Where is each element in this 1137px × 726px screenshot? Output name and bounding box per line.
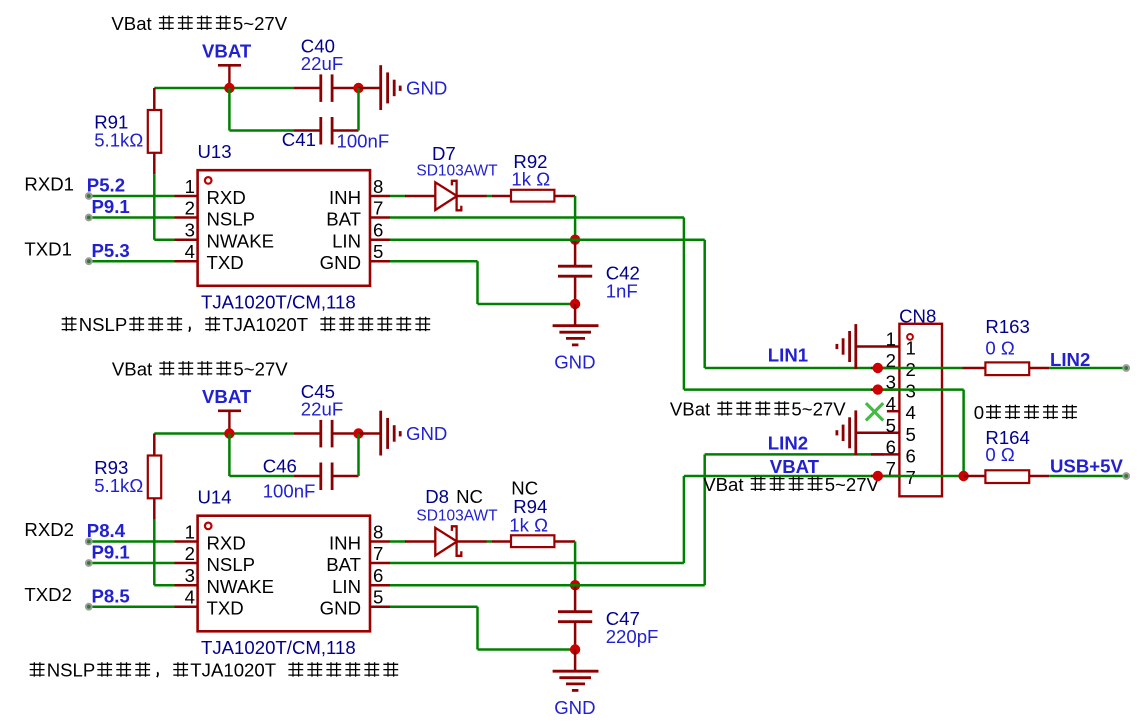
- wire C41 up to junction (upper): [357, 88, 360, 131]
- wire U14 BAT to CN8 pin7: [390, 476, 878, 563]
- label C47 value: [606, 626, 659, 647]
- junction VBAT rail / R (upper): [224, 83, 234, 93]
- label R164 designator: [985, 427, 1029, 448]
- net label P8.4: [87, 520, 126, 541]
- IC U14 pin-1 indicator circle: [205, 523, 212, 530]
- net label LIN2 (left of CN8): [768, 432, 808, 453]
- svg-text:4: 4: [906, 402, 916, 423]
- svg-text:6: 6: [373, 565, 383, 586]
- svg-text:7: 7: [373, 543, 383, 564]
- svg-text:GND: GND: [554, 697, 595, 718]
- svg-text:R163: R163: [985, 316, 1029, 337]
- svg-text:NSLP: NSLP: [207, 209, 256, 230]
- svg-text:LIN: LIN: [332, 231, 361, 252]
- wire VBAT rail (lower): [154, 432, 294, 435]
- wire end dot P5.3: [85, 257, 93, 265]
- wire U14 GND pin to C47 (lower): [390, 607, 575, 650]
- wire U14 LIN to CN8 pin6: [390, 454, 884, 585]
- label C42 designator: [606, 263, 640, 284]
- label R94 designator: [513, 496, 547, 517]
- svg-text:GND: GND: [406, 423, 447, 444]
- comment text 'VBat power 5~27V' near CN8 pin7: [703, 474, 879, 495]
- label U13 part number: [201, 292, 356, 313]
- capacitor C42 bottom pin (upper): [574, 276, 577, 304]
- IC U14 pin names: [207, 533, 362, 619]
- label D7 designator: [432, 143, 456, 164]
- resistor R91 body (upper): [148, 110, 161, 153]
- diode D8 anode wire (lower): [390, 540, 406, 543]
- wire to GND symbol (lower): [359, 432, 381, 435]
- svg-text:3: 3: [185, 220, 195, 241]
- comment text 'VBat power 5~27V' above lower LIN circuit: [112, 358, 288, 379]
- wire U13 BAT to CN8 pin3: [390, 218, 878, 390]
- resistor R92 right pin (upper): [554, 195, 575, 198]
- label GND (lower top): [406, 423, 447, 444]
- ground symbol (bar style) at CN8 pin1: [837, 324, 856, 369]
- wire to earth ground (upper): [574, 304, 577, 326]
- connector CN8 pin numbers (inside): [906, 338, 916, 489]
- svg-text:5: 5: [373, 241, 383, 262]
- svg-text:5.1kΩ: 5.1kΩ: [94, 130, 143, 151]
- wire end dot P8.4: [85, 538, 93, 546]
- net label LIN1: [768, 345, 808, 366]
- svg-text:RXD2: RXD2: [24, 519, 74, 540]
- svg-text:2: 2: [906, 359, 916, 380]
- wire P8.4 to chip (lower): [89, 540, 175, 543]
- capacitor C41 pins (upper): [294, 129, 359, 132]
- wire R163 to LIN2 port: [1049, 367, 1126, 370]
- diode D8 triangle: [435, 528, 457, 556]
- resistor R93 top pin (lower): [153, 434, 156, 456]
- label U13 designator: [198, 141, 232, 162]
- resistor R91 bottom pin (upper): [153, 153, 156, 175]
- net label P8.5: [92, 586, 130, 607]
- power port VBAT (lower): [202, 386, 252, 433]
- wire P8.5 to chip (lower): [89, 605, 175, 608]
- wire VBAT to C46 (lower): [229, 434, 294, 477]
- junction R94/LIN (lower): [570, 580, 580, 590]
- label R163 value 0Ω: [985, 338, 1015, 359]
- diode D8 anode pin (lower): [405, 540, 435, 543]
- svg-text:VBAT: VBAT: [770, 456, 820, 477]
- capacitor C45 pins (lower): [294, 432, 359, 435]
- comment text 'if NSLP low -> sleep' under U13: [62, 314, 430, 335]
- ground symbol (earth) below C47: [553, 671, 599, 690]
- svg-text:BAT: BAT: [326, 554, 361, 575]
- svg-text:TJA1020T: TJA1020T: [222, 314, 308, 335]
- svg-text:VBat: VBat: [112, 358, 153, 379]
- wire C46 up to junction (lower): [357, 434, 360, 477]
- label R92 designator: [513, 151, 547, 172]
- label CN8 designator: [899, 306, 936, 327]
- wire R94 down to LIN net (lower): [574, 542, 577, 586]
- svg-text:GND: GND: [320, 598, 361, 619]
- wire diode-R94 gap (lower): [487, 540, 493, 543]
- svg-text:1nF: 1nF: [606, 281, 638, 302]
- svg-text:5~27V: 5~27V: [233, 358, 288, 379]
- junction CN8 pin2: [873, 363, 883, 373]
- svg-text:GND: GND: [406, 78, 447, 99]
- svg-text:5.1kΩ: 5.1kΩ: [94, 475, 143, 496]
- label U14 designator: [198, 487, 232, 508]
- svg-text:1k Ω: 1k Ω: [509, 514, 548, 535]
- svg-text:5~27V: 5~27V: [791, 398, 846, 419]
- IC U13 pin names: [207, 187, 362, 273]
- svg-text:7: 7: [906, 467, 916, 488]
- label TXD1 (black): [24, 238, 72, 259]
- junction R92/LIN (upper): [570, 235, 580, 245]
- label D8 part SD103AWT: [416, 508, 498, 525]
- resistor R164 right pin: [1029, 475, 1049, 478]
- wire R93 to NWAKE (lower): [154, 520, 174, 585]
- wire diode-R92 gap (upper): [487, 195, 493, 198]
- label D7 part SD103AWT: [416, 163, 498, 180]
- svg-text:NWAKE: NWAKE: [207, 231, 275, 252]
- label C41 designator: [282, 129, 316, 150]
- svg-text:NSLP: NSLP: [47, 660, 96, 681]
- wire to GND symbol (upper): [359, 87, 381, 90]
- wire to earth ground (lower): [574, 650, 577, 672]
- connector CN8 body: [899, 324, 942, 497]
- label C47 designator: [606, 608, 640, 629]
- wire CN8 pin2 through to R163: [878, 367, 963, 370]
- svg-text:BAT: BAT: [326, 209, 361, 230]
- label U14 part number: [201, 637, 356, 658]
- label D8 NC flag: [456, 486, 483, 507]
- wire end dot P9.1: [85, 214, 93, 222]
- svg-text:TXD2: TXD2: [24, 584, 72, 605]
- junction cap/GND node (upper): [353, 83, 363, 93]
- label R91 designator: [94, 112, 128, 133]
- label R93 value 5.1kΩ: [94, 475, 143, 496]
- wire VBAT rail (upper): [154, 87, 294, 90]
- capacitor C47 bottom pin (lower): [574, 622, 577, 650]
- diode D7 schottky cathode bar: [452, 181, 461, 211]
- svg-text:4: 4: [185, 241, 195, 262]
- svg-text:1: 1: [906, 338, 916, 359]
- no-ERC marker (green X) at CN8 pin4: [866, 403, 883, 420]
- connector CN8 pin-1 indicator circle: [907, 334, 913, 340]
- svg-text:5: 5: [906, 424, 916, 445]
- resistor R163 right pin: [1029, 367, 1049, 370]
- svg-text:VBat: VBat: [670, 398, 711, 419]
- svg-text:USB+5V: USB+5V: [1050, 455, 1123, 476]
- label C45 designator: [301, 381, 335, 402]
- label R91 value 5.1kΩ: [94, 130, 143, 151]
- label R94 NC flag: [511, 478, 538, 499]
- svg-text:0 Ω: 0 Ω: [985, 444, 1015, 465]
- label C45 value 22uF: [301, 399, 343, 420]
- resistor R94 right pin (lower): [554, 540, 575, 543]
- wire CN8 pin7 through to junction: [878, 475, 964, 478]
- IC U13 pin stubs: [175, 196, 391, 261]
- svg-text:6: 6: [373, 220, 383, 241]
- capacitor C42 plates (upper): [558, 266, 592, 276]
- IC U13 pin-1 indicator circle: [205, 177, 212, 184]
- wire U13 LIN to CN8 pin2: [390, 240, 878, 368]
- resistor R93 body (lower): [148, 456, 161, 499]
- svg-text:100nF: 100nF: [337, 131, 390, 152]
- IC U14 pin numbers: [185, 522, 384, 608]
- svg-text:TXD: TXD: [207, 252, 244, 273]
- resistor R94 left pin (lower): [492, 540, 511, 543]
- svg-text:C46: C46: [263, 456, 297, 477]
- svg-text:TXD1: TXD1: [24, 238, 72, 259]
- svg-text:RXD1: RXD1: [24, 174, 74, 195]
- svg-text:7: 7: [373, 198, 383, 219]
- diode D7 anode pin (upper): [405, 195, 435, 198]
- svg-text:6: 6: [886, 436, 896, 457]
- wire end dot LIN2: [1122, 364, 1130, 372]
- svg-text:3: 3: [906, 381, 916, 402]
- wire end dot USB+5V: [1122, 472, 1130, 480]
- svg-text:TJA1020T/CM,118: TJA1020T/CM,118: [201, 292, 356, 313]
- svg-text:U14: U14: [198, 487, 232, 508]
- svg-text:SD103AWT: SD103AWT: [416, 508, 498, 525]
- label C46 designator: [263, 456, 297, 477]
- svg-text:5: 5: [886, 415, 896, 436]
- svg-text:D7: D7: [432, 143, 456, 164]
- svg-text:SD103AWT: SD103AWT: [416, 163, 498, 180]
- svg-text:1: 1: [185, 522, 195, 543]
- wire P5.3 to chip (upper): [89, 260, 175, 263]
- svg-text:RXD: RXD: [207, 187, 246, 208]
- svg-text:0: 0: [974, 402, 984, 423]
- svg-text:TJA1020T: TJA1020T: [190, 660, 276, 681]
- wire R91 to NWAKE (upper): [154, 174, 174, 239]
- svg-text:TXD: TXD: [207, 598, 244, 619]
- svg-text:22uF: 22uF: [301, 399, 343, 420]
- capacitor C40 plates (upper): [321, 74, 332, 102]
- label D8 designator: [425, 486, 449, 507]
- resistor R163 left pin: [963, 367, 986, 370]
- label RXD1 (black): [24, 174, 74, 195]
- capacitor C42 top pin (upper): [574, 240, 577, 266]
- svg-text:NSLP: NSLP: [79, 314, 128, 335]
- resistor R94 body (lower): [511, 535, 554, 547]
- capacitor C41 plates (upper): [321, 117, 332, 145]
- svg-text:LIN2: LIN2: [768, 432, 808, 453]
- svg-text:U13: U13: [198, 141, 232, 162]
- label RXD2 (black): [24, 519, 74, 540]
- power port VBAT (upper): [202, 41, 252, 88]
- wire end dot P8.5: [85, 603, 93, 611]
- label R93 designator: [94, 457, 128, 478]
- resistor R93 bottom pin (lower): [153, 498, 156, 520]
- junction VBAT rail / R (lower): [224, 428, 234, 438]
- svg-text:GND: GND: [554, 352, 595, 373]
- junction C47/GND wire (lower): [570, 644, 580, 654]
- resistor R91 top pin (upper): [153, 88, 156, 110]
- label GND (upper top): [406, 78, 447, 99]
- label GND (below C42): [554, 352, 595, 373]
- capacitor C47 top pin (lower): [574, 585, 577, 611]
- junction CN8 pin7: [873, 471, 883, 481]
- ground symbol (bar style) at CN8 pin5: [837, 410, 856, 455]
- svg-text:0 Ω: 0 Ω: [985, 338, 1015, 359]
- svg-text:8: 8: [373, 176, 383, 197]
- net label VBAT (left of CN8 pin7): [770, 456, 820, 477]
- wire end dot P9.1: [85, 559, 93, 567]
- resistor R164 left pin: [964, 475, 986, 478]
- junction C42/GND wire (upper): [570, 299, 580, 309]
- svg-text:2: 2: [185, 198, 195, 219]
- junction pin3-net / R164: [958, 471, 968, 481]
- capacitor C40 pins (upper): [294, 87, 359, 90]
- connector CN8 pin stubs: [856, 347, 900, 477]
- capacitor C46 pins (lower): [294, 475, 359, 478]
- ground symbol (bar style) right of C40: [381, 65, 401, 110]
- wire end dot P5.2: [85, 192, 93, 200]
- label R94 value 1kΩ: [509, 514, 548, 535]
- svg-text:LIN2: LIN2: [1050, 349, 1090, 370]
- svg-text:LIN: LIN: [332, 576, 361, 597]
- wire R92 down to LIN net (upper): [574, 196, 577, 240]
- svg-text:INH: INH: [329, 533, 361, 554]
- svg-text:INH: INH: [329, 187, 361, 208]
- junction CN8 pin3: [873, 384, 883, 394]
- resistor R92 left pin (upper): [492, 195, 511, 198]
- label C46 value 100nF: [263, 480, 316, 501]
- ground symbol (bar style) right of C45: [381, 411, 401, 456]
- svg-text:5: 5: [373, 587, 383, 608]
- resistor R164 body: [985, 470, 1029, 483]
- svg-text:TJA1020T/CM,118: TJA1020T/CM,118: [201, 637, 356, 658]
- svg-text:1: 1: [886, 329, 896, 350]
- svg-text:220pF: 220pF: [606, 626, 659, 647]
- wire U13 GND pin to C42 (upper): [390, 261, 575, 304]
- resistor R163 body: [985, 362, 1029, 375]
- svg-text:LIN1: LIN1: [768, 345, 808, 366]
- net label P9.1: [92, 542, 130, 563]
- label TXD2 (black): [24, 584, 72, 605]
- svg-text:6: 6: [906, 445, 916, 466]
- ground symbol (earth) below C42: [553, 326, 599, 345]
- svg-text:P8.5: P8.5: [92, 586, 130, 607]
- diode D7 triangle: [435, 182, 457, 210]
- svg-text:8: 8: [373, 522, 383, 543]
- svg-text:VBat: VBat: [703, 474, 744, 495]
- svg-text:22uF: 22uF: [301, 53, 343, 74]
- diode D7 anode wire (upper): [390, 195, 406, 198]
- svg-text:1k Ω: 1k Ω: [511, 168, 550, 189]
- capacitor C45 plates (lower): [321, 420, 332, 448]
- comment text '0 ohm jumper': [974, 402, 1077, 423]
- svg-text:P5.2: P5.2: [87, 175, 125, 196]
- resistor R92 body (upper): [511, 190, 554, 202]
- label C40 value 22uF: [301, 53, 343, 74]
- net label P5.3: [92, 240, 130, 261]
- wire CN8 pin3 through and down to pin7 net: [878, 390, 964, 476]
- net label LIN2 (right): [1050, 349, 1090, 370]
- diode D8 cathode pin (lower): [457, 540, 487, 543]
- IC U13 body (TJA1020T): [198, 170, 370, 286]
- IC U14 body (TJA1020T): [198, 516, 370, 632]
- svg-text:NC: NC: [456, 486, 483, 507]
- svg-text:VBAT: VBAT: [202, 41, 252, 62]
- capacitor C47 plates (lower): [558, 612, 592, 622]
- label GND (below C47): [554, 697, 595, 718]
- wire R164 to USB+5V port: [1049, 475, 1126, 478]
- label C40 designator: [301, 36, 335, 57]
- capacitor C46 plates (lower): [321, 463, 332, 491]
- comment text 'VBat power 5~27V' near CN8 pin3: [670, 398, 846, 419]
- svg-text:P9.1: P9.1: [92, 542, 130, 563]
- svg-text:RXD: RXD: [207, 533, 246, 554]
- svg-text:GND: GND: [320, 252, 361, 273]
- svg-text:100nF: 100nF: [263, 480, 316, 501]
- net label P5.2: [87, 175, 125, 196]
- svg-text:P9.1: P9.1: [92, 196, 130, 217]
- label R163 designator: [985, 316, 1029, 337]
- net label P9.1: [92, 196, 130, 217]
- wire P5.2 to chip (upper): [89, 195, 175, 198]
- svg-text:1: 1: [185, 176, 195, 197]
- svg-text:3: 3: [185, 565, 195, 586]
- svg-text:P5.3: P5.3: [92, 240, 130, 261]
- svg-text:2: 2: [185, 543, 195, 564]
- connector CN8 pin numbers (outside): [886, 329, 896, 480]
- svg-text:CN8: CN8: [899, 306, 936, 327]
- IC U14 pin stubs: [175, 542, 391, 607]
- wire P9.1 to chip (lower): [89, 562, 175, 565]
- svg-text:4: 4: [185, 587, 195, 608]
- svg-text:NWAKE: NWAKE: [207, 576, 275, 597]
- wire P9.1 to chip (upper): [89, 216, 175, 219]
- svg-text:4: 4: [886, 393, 896, 414]
- label C42 value: [606, 281, 638, 302]
- svg-text:VBAT: VBAT: [202, 386, 252, 407]
- comment text 'if NSLP low -> sleep' under U14: [30, 660, 398, 681]
- comment text 'VBat power 5~27V' above upper LIN circuit: [111, 13, 287, 34]
- svg-text:NSLP: NSLP: [207, 554, 256, 575]
- label R164 value 0Ω: [985, 444, 1015, 465]
- svg-text:D8: D8: [425, 486, 449, 507]
- svg-text:5~27V: 5~27V: [233, 13, 288, 34]
- wire VBAT to C41 (upper): [229, 88, 294, 131]
- net label USB+5V: [1050, 455, 1123, 476]
- junction cap/GND node (lower): [353, 428, 363, 438]
- label C41 value 100nF: [337, 131, 390, 152]
- label R92 value 1kΩ: [511, 168, 550, 189]
- diode D7 cathode pin (upper): [457, 195, 487, 198]
- IC U13 pin numbers: [185, 176, 384, 262]
- diode D8 schottky cathode bar: [452, 526, 461, 556]
- svg-text:C41: C41: [282, 129, 316, 150]
- svg-text:P8.4: P8.4: [87, 520, 126, 541]
- svg-text:VBat: VBat: [111, 13, 152, 34]
